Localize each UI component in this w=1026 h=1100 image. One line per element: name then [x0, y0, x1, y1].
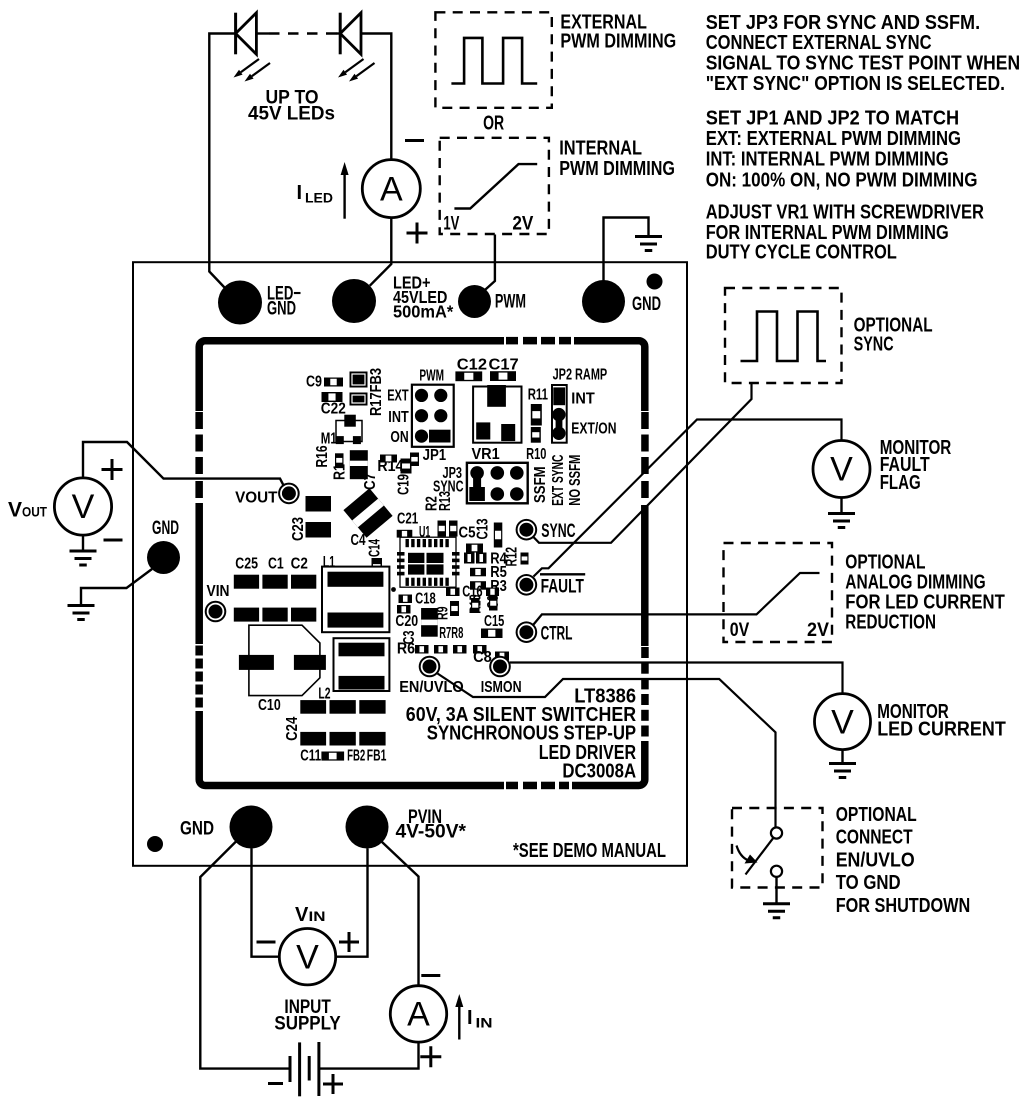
ammeter IIN: [390, 986, 446, 1042]
svg-text:JP1: JP1: [423, 447, 447, 464]
svg-text:0V: 0V: [730, 619, 750, 641]
demo board outer edge: [133, 262, 687, 866]
svg-text:ANALOG DIMMING: ANALOG DIMMING: [845, 572, 985, 594]
svg-text:V: V: [72, 488, 95, 526]
wire VIN meter plus to PVIN pad: [336, 849, 368, 957]
svg-text:INT: INT: [388, 409, 409, 426]
pad FAULT: [516, 574, 538, 596]
svg-text:FAULT: FAULT: [541, 575, 584, 597]
voltmeter fault flag: [813, 441, 870, 498]
terminal LED-: [218, 281, 262, 325]
svg-text:OUT: OUT: [22, 504, 47, 520]
transistor M1: [336, 421, 362, 442]
terminal GND bottom: [230, 806, 273, 849]
pad CTRL: [516, 621, 538, 643]
wire GND terminal to ground: [604, 218, 649, 282]
svg-text:U1: U1: [419, 524, 431, 541]
battery input supply: [268, 1042, 343, 1096]
svg-text:FOR SHUTDOWN: FOR SHUTDOWN: [836, 895, 971, 917]
svg-text:C20: C20: [395, 613, 418, 630]
svg-text:CTRL: CTRL: [541, 623, 573, 645]
svg-text:OR: OR: [483, 111, 504, 134]
svg-text:ISMON: ISMON: [481, 679, 522, 696]
svg-text:SYNC: SYNC: [541, 520, 575, 542]
wire EN/UVLO pad to shutdown switch: [438, 674, 776, 828]
svg-text:C21: C21: [397, 511, 418, 528]
wire GND pad to VIN meter minus: [252, 849, 280, 957]
svg-text:FOR LED CURRENT: FOR LED CURRENT: [845, 592, 1005, 614]
wire GND pad to battery minus: [200, 842, 290, 1069]
resistor R3: [470, 581, 486, 590]
svg-text:SUPPLY: SUPPLY: [274, 1013, 340, 1035]
svg-text:V: V: [296, 938, 319, 976]
external PWM dimming source box: [435, 12, 551, 108]
ground VOUT meter: [82, 535, 84, 550]
pad SYNC: [516, 519, 538, 541]
svg-text:2V: 2V: [807, 619, 829, 641]
svg-text:I: I: [467, 1007, 473, 1029]
svg-text:EXT/ON: EXT/ON: [571, 421, 616, 438]
wire LED- string left: [209, 34, 235, 288]
svg-text:R17FB3: R17FB3: [368, 368, 385, 416]
svg-text:EN/UVLO: EN/UVLO: [399, 679, 464, 696]
optional shutdown switch box: [732, 808, 823, 888]
resistor R4: [464, 553, 475, 564]
board title LT8386: [406, 685, 636, 783]
svg-text:VOUT: VOUT: [235, 489, 278, 506]
optional sync box: [725, 288, 842, 383]
svg-text:C24: C24: [284, 716, 301, 741]
svg-text:C23: C23: [290, 517, 307, 541]
svg-text:CONNECT EXTERNAL SYNC: CONNECT EXTERNAL SYNC: [706, 31, 932, 54]
svg-text:INTERNAL: INTERNAL: [559, 136, 642, 159]
svg-text:SSFM: SSFM: [532, 466, 549, 503]
pad FB3 top: [350, 372, 368, 388]
label IIN with arrow: [458, 1007, 460, 1040]
svg-text:DUTY CYCLE CONTROL: DUTY CYCLE CONTROL: [706, 241, 897, 264]
pad VOUT: [278, 483, 300, 505]
svg-text:V: V: [8, 499, 22, 522]
svg-text:TO GND: TO GND: [836, 872, 901, 894]
svg-text:EXT SYNC: EXT SYNC: [550, 455, 567, 506]
svg-text:C22: C22: [321, 401, 346, 418]
svg-text:CONNECT: CONNECT: [836, 826, 913, 848]
svg-text:C14: C14: [367, 539, 384, 557]
wire sync box to SYNC pad: [532, 384, 752, 543]
note: VR1 adjustment instructions: [706, 201, 984, 264]
mounting hole top right: [647, 274, 663, 290]
terminal PVIN: [346, 806, 389, 849]
terminal PWM: [458, 285, 491, 318]
svg-text:EN/UVLO: EN/UVLO: [836, 849, 915, 871]
wire FAULT pad to fault meter: [534, 420, 842, 577]
voltmeter LED current: [815, 694, 871, 750]
ammeter ILED: [362, 160, 420, 218]
capacitor C22: [322, 392, 343, 402]
svg-text:1V: 1V: [443, 213, 459, 235]
svg-text:PWM: PWM: [495, 291, 526, 313]
svg-text:R13: R13: [437, 491, 454, 511]
svg-text:PWM DIMMING: PWM DIMMING: [560, 30, 676, 53]
svg-text:OPTIONAL: OPTIONAL: [836, 804, 917, 826]
svg-text:C9: C9: [306, 374, 322, 391]
terminal GND top: [582, 280, 625, 323]
LED D2: [338, 13, 375, 82]
svg-text:V: V: [295, 904, 309, 926]
pad FB3 bottom: [350, 393, 368, 406]
mounting hole bottom left: [147, 836, 163, 852]
svg-text:INT: INT: [571, 391, 595, 408]
svg-text:LED: LED: [305, 191, 333, 206]
svg-text:*SEE DEMO MANUAL: *SEE DEMO MANUAL: [513, 839, 666, 862]
svg-text:C17: C17: [489, 357, 519, 374]
svg-text:ON: 100% ON, NO PWM DIMMING: ON: 100% ON, NO PWM DIMMING: [706, 169, 978, 192]
svg-text:V: V: [830, 451, 853, 489]
wire VOUT meter to VOUT pad: [83, 442, 287, 492]
svg-text:ON: ON: [390, 429, 408, 446]
resistor R5: [470, 568, 486, 577]
svg-text:LED CURRENT: LED CURRENT: [877, 719, 1006, 741]
capacitor C10: [249, 625, 320, 695]
terminal LED+: [332, 279, 376, 323]
svg-text:C7: C7: [362, 473, 379, 490]
wire dashed LED string: [256, 32, 269, 34]
svg-text:A: A: [380, 170, 403, 208]
note: JP3 setup instructions: [706, 11, 1020, 95]
wire LED+ string right: [361, 34, 391, 161]
capacitor C16: [446, 588, 460, 597]
svg-text:C18: C18: [415, 590, 436, 607]
svg-text:GND: GND: [152, 517, 179, 539]
wire PVIN pad to ammeter IIN: [382, 842, 419, 986]
wire ISMON pad to current meter: [510, 663, 843, 694]
svg-text:R11: R11: [528, 387, 549, 404]
ground top right: [635, 237, 662, 251]
LED D1: [234, 13, 271, 82]
svg-text:R6: R6: [397, 640, 416, 657]
svg-text:A: A: [407, 996, 430, 1034]
svg-text:EXT: EXT: [387, 387, 409, 404]
PCB parts: [205, 357, 637, 783]
svg-text:SYNC: SYNC: [854, 332, 894, 355]
svg-text:C2: C2: [291, 556, 308, 573]
wire GND left pad to ground: [81, 569, 152, 604]
svg-text:C5: C5: [459, 525, 476, 542]
svg-text:SET JP1 AND JP2 TO MATCH: SET JP1 AND JP2 TO MATCH: [706, 106, 960, 129]
svg-text:500mA*: 500mA*: [393, 302, 453, 322]
pad EN/UVLO: [419, 656, 441, 678]
svg-text:I: I: [297, 182, 303, 204]
pad VIN: [205, 601, 227, 623]
wire CTRL pad to analog dimming ramp: [534, 573, 820, 625]
svg-text:GND: GND: [632, 293, 661, 315]
svg-text:C1: C1: [268, 556, 284, 573]
inductor L2: [334, 638, 390, 691]
capacitor C4: [343, 488, 392, 537]
resistor R10: [531, 427, 541, 443]
capacitor C3 vertical chip: [421, 608, 438, 637]
svg-text:C19: C19: [396, 474, 413, 495]
svg-text:GND: GND: [180, 818, 214, 840]
svg-text:"EXT SYNC" OPTION IS SELECTED.: "EXT SYNC" OPTION IS SELECTED.: [706, 72, 1005, 95]
svg-text:2V: 2V: [512, 213, 533, 235]
svg-text:M1: M1: [321, 431, 337, 448]
svg-text:GND: GND: [267, 298, 296, 320]
svg-text:VIN: VIN: [207, 583, 230, 600]
svg-text:INT: INTERNAL PWM DIMMING: INT: INTERNAL PWM DIMMING: [706, 147, 949, 170]
pad ISMON: [489, 656, 511, 678]
pad GND left: [147, 541, 180, 574]
svg-text:L2: L2: [318, 686, 330, 703]
svg-text:R1: R1: [332, 464, 349, 480]
svg-text:C12: C12: [457, 357, 487, 374]
svg-text:IN: IN: [309, 909, 326, 924]
PCB silkscreen outline: [199, 341, 645, 786]
switch SW en/uvlo: [737, 827, 783, 877]
svg-text:C10: C10: [258, 697, 281, 714]
svg-text:JP2 RAMP: JP2 RAMP: [553, 367, 608, 384]
svg-text:FB2: FB2: [347, 748, 365, 765]
capacitor C18: [399, 595, 413, 604]
ground switch: [775, 877, 777, 903]
svg-text:VR1: VR1: [472, 446, 501, 463]
ground left: [68, 606, 95, 620]
svg-text:NO SSFM: NO SSFM: [567, 455, 584, 506]
svg-text:C15: C15: [484, 613, 505, 630]
trimpot VR1: [473, 387, 521, 443]
svg-text:45V LEDs: 45V LEDs: [248, 103, 335, 125]
svg-text:R10: R10: [526, 446, 546, 463]
note: JP1/JP2 setup instructions: [706, 106, 978, 191]
wire internal dimming to PWM pad: [481, 235, 495, 294]
svg-text:C13: C13: [475, 518, 492, 539]
svg-text:OPTIONAL: OPTIONAL: [845, 552, 925, 574]
svg-text:C11: C11: [300, 748, 321, 765]
svg-text:IN: IN: [476, 1016, 493, 1031]
svg-text:PWM: PWM: [419, 368, 444, 385]
svg-text:C4: C4: [351, 532, 366, 549]
svg-text:DC3008A: DC3008A: [562, 760, 636, 783]
wire A to LED+ pad: [370, 217, 392, 286]
svg-text:PWM DIMMING: PWM DIMMING: [559, 157, 675, 180]
svg-text:FLAG: FLAG: [880, 472, 921, 494]
svg-text:FB1: FB1: [367, 748, 387, 765]
svg-text:REDUCTION: REDUCTION: [845, 612, 936, 634]
svg-text:4V-50V*: 4V-50V*: [396, 822, 467, 843]
optional analog dimming box: [724, 543, 833, 642]
svg-text:R16: R16: [314, 445, 331, 467]
voltmeter VOUT: [54, 478, 111, 535]
voltmeter VIN: [279, 929, 335, 985]
internal PWM dimming source box: [440, 138, 549, 234]
svg-text:R7R8: R7R8: [439, 625, 463, 642]
svg-text:C25: C25: [235, 556, 258, 573]
svg-text:C8: C8: [473, 649, 492, 666]
svg-text:V: V: [831, 703, 854, 741]
wire ammeter to battery plus: [319, 1042, 419, 1069]
